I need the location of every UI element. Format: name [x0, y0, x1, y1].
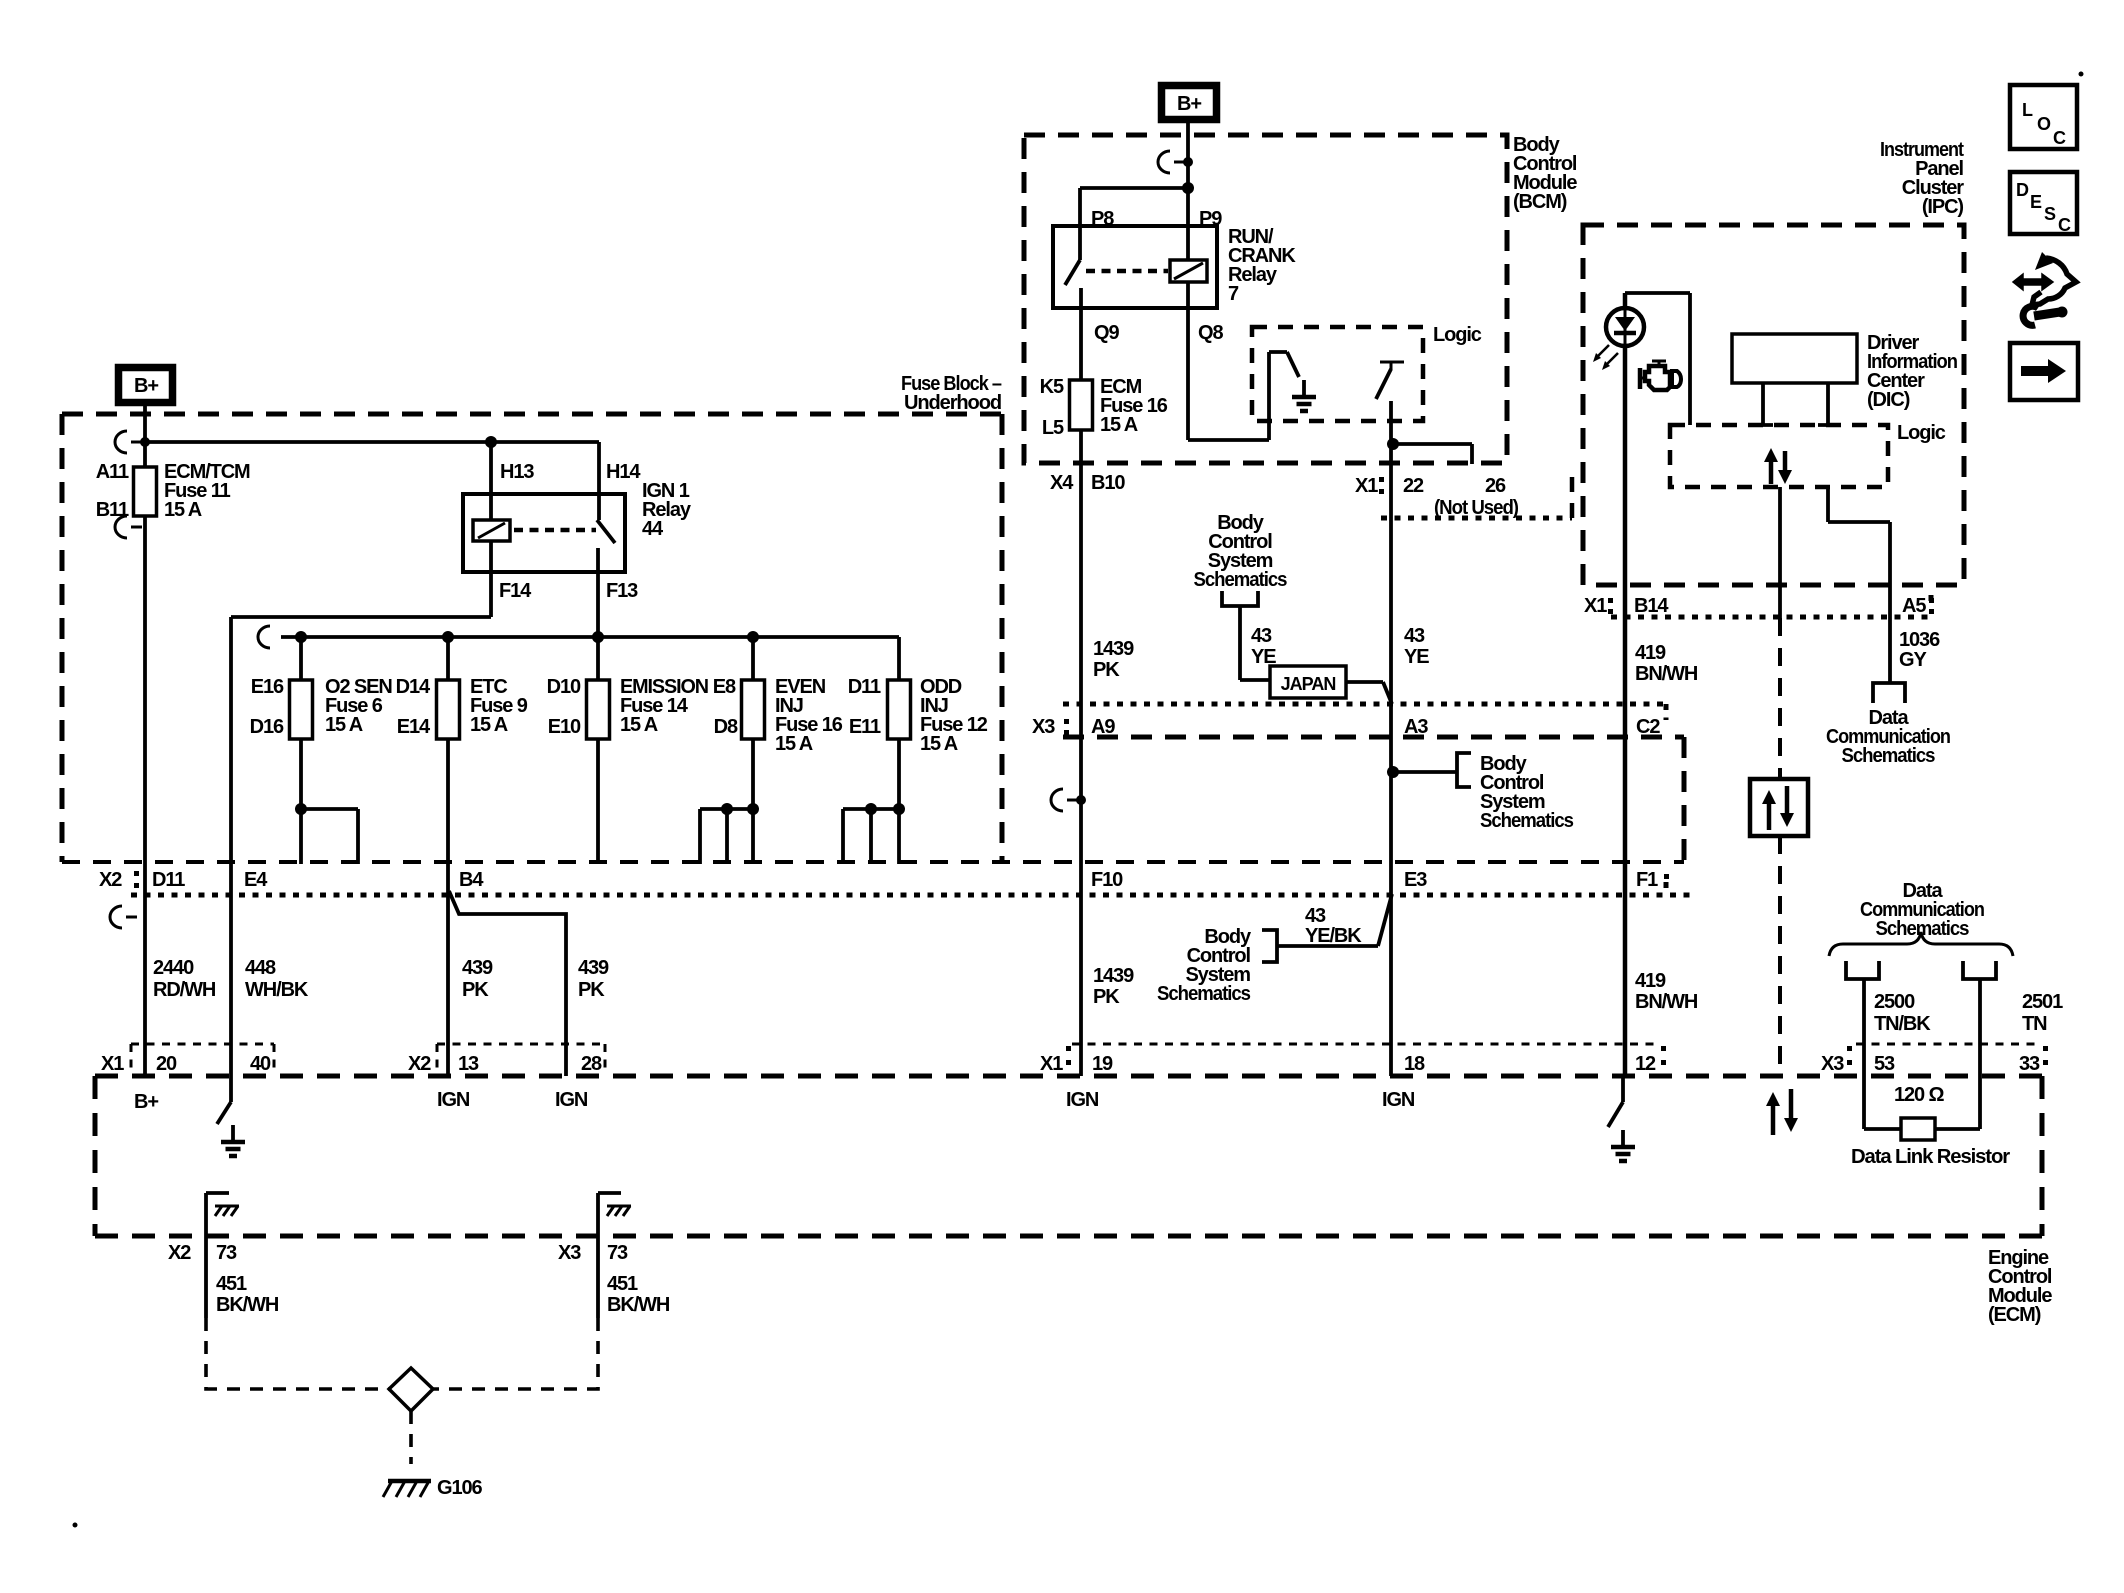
svg-text:15 A: 15 A: [325, 714, 363, 736]
svg-text:1439: 1439: [1093, 965, 1134, 987]
svg-text:X1: X1: [1584, 595, 1607, 617]
svg-text:E4: E4: [244, 869, 268, 891]
svg-text:(Not Used): (Not Used): [1434, 497, 1518, 519]
svg-text:X1: X1: [101, 1053, 124, 1075]
check engine icon: [1640, 361, 1681, 390]
svg-text:BN/WH: BN/WH: [1635, 991, 1698, 1013]
reference bracket wire 2501: [1963, 961, 2063, 1076]
svg-text:E11: E11: [849, 716, 881, 738]
svg-text:43: 43: [1305, 905, 1326, 927]
icon LOC box: [2010, 85, 2077, 149]
svg-text:7: 7: [1228, 283, 1239, 305]
svg-text:B10: B10: [1091, 472, 1125, 494]
svg-text:X2: X2: [168, 1242, 191, 1264]
data communication schematics brace: [1829, 880, 2013, 956]
svg-text:X2: X2: [99, 869, 122, 891]
svg-text:12: 12: [1635, 1053, 1656, 1075]
svg-text:Q9: Q9: [1094, 322, 1119, 344]
svg-text:D14: D14: [396, 676, 431, 698]
svg-text:H14: H14: [606, 461, 641, 483]
svg-text:2500: 2500: [1874, 991, 1915, 1013]
svg-text:A9: A9: [1091, 716, 1115, 738]
svg-text:F10: F10: [1091, 869, 1123, 891]
svg-text:E14: E14: [397, 716, 431, 738]
svg-text:73: 73: [216, 1242, 237, 1264]
wire Q8 to BCM logic: [1188, 308, 1287, 440]
svg-text:TN/BK: TN/BK: [1874, 1013, 1931, 1035]
driver information center DIC box: [1732, 332, 1957, 411]
svg-text:44: 44: [642, 518, 664, 540]
svg-text:C2: C2: [1636, 716, 1660, 738]
svg-text:Logic: Logic: [1433, 324, 1482, 346]
svg-text:40: 40: [250, 1053, 271, 1075]
ECM connector X1 pins 20 40 box: [101, 1044, 274, 1075]
svg-text:451: 451: [216, 1273, 247, 1295]
ECM connector X3 pins 53 33 box: [1821, 1044, 2048, 1075]
not used dashed box: [1379, 477, 1572, 518]
svg-text:26: 26: [1485, 475, 1506, 497]
svg-text:BN/WH: BN/WH: [1635, 663, 1698, 685]
svg-text:IGN: IGN: [437, 1089, 470, 1111]
svg-text:439: 439: [462, 957, 493, 979]
BCM logic ignition switch: [1376, 362, 1404, 399]
svg-text:43: 43: [1251, 625, 1272, 647]
wire B+ into BCM: [1186, 123, 1190, 226]
BCM X3 pin labels A9 A3 C2: [1032, 716, 1660, 738]
connector hook below fuse 11: [115, 516, 142, 538]
svg-text:B14: B14: [1634, 595, 1669, 617]
svg-text:2440: 2440: [153, 957, 194, 979]
svg-text:X2: X2: [408, 1053, 431, 1075]
ECM dashed box: [95, 1076, 2052, 1326]
svg-text:Schematics: Schematics: [1842, 745, 1936, 767]
battery feed B+ terminal 2: [1162, 86, 1217, 120]
ground G106: [383, 1477, 483, 1499]
svg-text:Logic: Logic: [1897, 422, 1946, 444]
wire 43 YE/BK to pin 18 wire: [1277, 894, 1392, 947]
serial data arrows at ECM: [1766, 1089, 1798, 1135]
ECM ground symbol below pin 40: [221, 1125, 245, 1156]
svg-text:22: 22: [1403, 475, 1424, 497]
svg-text:X1: X1: [1355, 475, 1378, 497]
wire 439 PK fuse 9 to ECM pin 13: [448, 739, 493, 1076]
svg-text:419: 419: [1635, 642, 1666, 664]
svg-text:20: 20: [156, 1053, 177, 1075]
svg-text:53: 53: [1874, 1053, 1895, 1075]
fuse ODD INJ Fuse 12 15A: [848, 637, 988, 755]
svg-text:13: 13: [458, 1053, 479, 1075]
BCM X1 pin labels 22 26: [1355, 475, 1518, 519]
wire 1036 GY IPC A5: [1828, 487, 1890, 617]
IPC logic dashed box: [1670, 422, 1946, 487]
svg-text:15 A: 15 A: [775, 733, 813, 755]
svg-text:419: 419: [1635, 970, 1666, 992]
wire 1439 PK BCM B10 to ECM pin 19: [1050, 430, 1134, 1076]
ECM connector X2 pins 13 28 box: [408, 1044, 605, 1075]
wire bus B+ to IGN 1 relay: [145, 436, 599, 448]
splice diamond: [389, 1368, 433, 1411]
wire 439 PK branch to ECM pin 28: [449, 891, 609, 1076]
svg-text:Schematics: Schematics: [1194, 569, 1288, 591]
svg-text:33: 33: [2019, 1053, 2040, 1075]
svg-text:Schematics: Schematics: [1480, 810, 1574, 832]
svg-text:B+: B+: [134, 375, 158, 397]
svg-text:JAPAN: JAPAN: [1281, 674, 1336, 694]
svg-text:15 A: 15 A: [164, 499, 202, 521]
svg-text:RD/WH: RD/WH: [153, 979, 216, 1001]
svg-text:15 A: 15 A: [620, 714, 658, 736]
wire 419 BN/WH IPC B14 to ECM pin 12: [1625, 347, 1698, 1076]
svg-text:19: 19: [1092, 1053, 1113, 1075]
relay IGN 1 44 box: [463, 480, 692, 572]
svg-text:C: C: [2053, 128, 2066, 148]
svg-text:43: 43: [1404, 625, 1425, 647]
BCM X3 connector dotted line: [1063, 704, 1666, 720]
connector hook splice at B+ bus: [115, 431, 150, 453]
svg-text:BK/WH: BK/WH: [216, 1294, 279, 1316]
fuse ECM Fuse 16 15A: [1040, 308, 1168, 439]
ground distribution dashed wire left: [206, 1318, 389, 1389]
svg-text:1036: 1036: [1899, 629, 1940, 651]
relay IGN 1 pin F14 wire to ECM pin 40: [231, 541, 532, 1076]
wire 43 YE to JAPAN splice: [1240, 606, 1276, 680]
svg-text:X3: X3: [1821, 1053, 1844, 1075]
serial data arrows box: [1750, 779, 1808, 836]
ECM connector X1 pins 19 18 12 box: [1040, 1044, 1666, 1075]
svg-text:D11: D11: [848, 676, 881, 698]
ECM pin function labels: [134, 1089, 1415, 1113]
IPC X1 pin labels B14 A5: [1584, 595, 1934, 617]
wire O2 SEN fuse outputs: [295, 739, 358, 864]
icon arrow box: [2010, 343, 2078, 400]
relay RUN/CRANK coil link dashed: [1086, 269, 1168, 274]
fuse ECM/TCM Fuse 11 15A: [96, 461, 250, 521]
svg-text:73: 73: [607, 1242, 628, 1264]
svg-text:(IPC): (IPC): [1922, 196, 1964, 218]
svg-text:Underhood: Underhood: [904, 392, 1001, 414]
ECM ground pin X3 73 labels: [558, 1242, 670, 1316]
svg-text:IGN: IGN: [555, 1089, 588, 1111]
LED arrows: [1593, 345, 1618, 370]
icon DESC box: [2010, 172, 2077, 235]
fuse EVEN INJ Fuse 16 15A: [713, 637, 843, 755]
svg-text:B+: B+: [134, 1091, 158, 1113]
relay RUN/CRANK coil: [1170, 208, 1223, 344]
svg-text:TN: TN: [2022, 1013, 2047, 1035]
relay IGN 1 coil: [473, 442, 534, 541]
svg-text:A5: A5: [1902, 595, 1926, 617]
svg-text:F13: F13: [606, 580, 638, 602]
svg-text:L: L: [2022, 100, 2033, 120]
wire EVEN INJ fuse outputs: [700, 739, 759, 864]
splice JAPAN box: [1270, 666, 1346, 698]
svg-text:(DIC): (DIC): [1867, 389, 1910, 411]
BCM logic switch to ground: [1287, 352, 1299, 377]
svg-text:S: S: [2044, 204, 2056, 224]
wire JAPAN to pin A3 junction: [1346, 682, 1392, 704]
svg-text:120 Ω: 120 Ω: [1894, 1084, 1945, 1106]
ECM internal switch to ground from pin 12: [1608, 1076, 1623, 1127]
svg-text:WH/BK: WH/BK: [245, 979, 309, 1001]
connector hook splice on 1439 PK wire: [1051, 789, 1086, 811]
svg-text:X3: X3: [1032, 716, 1055, 738]
wire P8 branch: [1080, 182, 1194, 226]
wire EMISSION fuse output: [596, 739, 600, 864]
harness row dashed line: [62, 860, 1684, 864]
svg-text:D10: D10: [547, 676, 581, 698]
svg-text:A3: A3: [1404, 716, 1428, 738]
svg-text:15 A: 15 A: [920, 733, 958, 755]
reference data communication schematics upper: [1826, 683, 1950, 767]
data link resistor 120 ohm: [1851, 1076, 2010, 1168]
relay IGN 1 coil link dashed: [514, 528, 596, 533]
reference body control system schematics right: [1480, 753, 1574, 832]
relay RUN/CRANK 7 box: [1053, 226, 1296, 308]
svg-text:PK: PK: [1093, 659, 1120, 681]
svg-text:P8: P8: [1091, 208, 1114, 230]
svg-text:PK: PK: [462, 979, 489, 1001]
svg-text:YE: YE: [1404, 646, 1429, 668]
svg-text:Data Link Resistor: Data Link Resistor: [1851, 1146, 2010, 1168]
svg-text:E3: E3: [1404, 869, 1427, 891]
wire 1036 GY to data communication reference: [1890, 617, 1940, 682]
ignition fuse bus wire: [281, 631, 899, 643]
ECM ground pin X3 73: [598, 1193, 631, 1318]
svg-text:O: O: [2037, 114, 2051, 134]
wire IPC logic serial data down: [1778, 487, 1782, 618]
svg-text:C: C: [2058, 215, 2071, 235]
svg-text:28: 28: [581, 1053, 602, 1075]
battery feed B+ terminal 1: [119, 368, 173, 403]
svg-text:E10: E10: [548, 716, 581, 738]
fuse ETC Fuse 9 15A: [396, 637, 528, 739]
svg-text:D16: D16: [250, 716, 284, 738]
svg-text:B4: B4: [459, 869, 484, 891]
svg-text:E16: E16: [251, 676, 284, 698]
svg-text:A11: A11: [96, 461, 129, 483]
BCM logic ground symbol: [1292, 380, 1316, 411]
serial data dashed wire to ECM: [1778, 618, 1782, 1074]
fuse EMISSION Fuse 14 15A: [547, 637, 709, 739]
svg-text:E8: E8: [713, 676, 736, 698]
junction A3 to body control reference: [1387, 753, 1471, 787]
svg-text:451: 451: [607, 1273, 638, 1295]
svg-text:GY: GY: [1899, 649, 1927, 671]
svg-text:(BCM): (BCM): [1513, 191, 1567, 213]
svg-text:BK/WH: BK/WH: [607, 1294, 670, 1316]
wire BCM logic to pin 22: [1387, 401, 1399, 1076]
svg-text:15 A: 15 A: [1100, 414, 1138, 436]
wire B+ to fuse 11: [143, 406, 147, 467]
svg-text:PK: PK: [1093, 986, 1120, 1008]
svg-text:18: 18: [1404, 1053, 1425, 1075]
svg-text:439: 439: [578, 957, 609, 979]
wire 2440 RD/WH fuse 11 to ECM pin 20: [145, 516, 216, 1076]
wire LED to DIC logic: [1625, 293, 1690, 425]
connector X2 labels row: [99, 869, 1669, 891]
fuse block underhood dashed box: [62, 373, 1002, 862]
ground distribution dashed wire right: [433, 1318, 598, 1389]
ECM ground symbol below pin 12: [1611, 1130, 1635, 1161]
svg-text:15 A: 15 A: [470, 714, 508, 736]
svg-text:(ECM): (ECM): [1988, 1304, 2041, 1326]
svg-text:G106: G106: [437, 1477, 483, 1499]
fuse O2 SEN Fuse 6 15A: [250, 637, 393, 739]
relay IGN 1 switch: [597, 442, 641, 572]
svg-text:F1: F1: [1636, 869, 1658, 891]
svg-text:X4: X4: [1050, 472, 1074, 494]
svg-text:H13: H13: [500, 461, 534, 483]
wire 43 YE pin A3 label: [1404, 625, 1429, 668]
relay RUN/CRANK switch: [1065, 208, 1119, 344]
relay IGN 1 pin F13 wire to fuse bus: [598, 572, 638, 637]
svg-text:2501: 2501: [2022, 991, 2063, 1013]
svg-text:L5: L5: [1042, 417, 1064, 439]
wire branch to pin 26 not used: [1393, 444, 1472, 464]
harness row dotted line: [131, 882, 1690, 895]
dashed wire splice to G106: [409, 1411, 413, 1464]
ECM ground pin X2 73: [206, 1193, 239, 1318]
svg-text:P9: P9: [1199, 208, 1222, 230]
wire ODD INJ fuse outputs: [843, 739, 905, 864]
icon hotspot wrench: [2013, 252, 2076, 325]
svg-text:D: D: [2016, 180, 2029, 200]
svg-text:E: E: [2030, 192, 2042, 212]
svg-text:F14: F14: [499, 580, 532, 602]
IPC dashed box: [1583, 139, 1964, 585]
svg-text:IGN: IGN: [1382, 1089, 1415, 1111]
svg-text:Q8: Q8: [1198, 322, 1223, 344]
svg-text:448: 448: [245, 957, 276, 979]
connector hook at X2 D11: [110, 906, 137, 928]
connector hook splice on BCM B+ wire: [1158, 151, 1193, 173]
svg-text:D8: D8: [714, 716, 738, 738]
IPC logic serial data arrows: [1764, 448, 1792, 484]
svg-text:IGN: IGN: [1066, 1089, 1099, 1111]
svg-text:X1: X1: [1040, 1053, 1063, 1075]
reference body control system schematics upper: [1194, 512, 1288, 606]
connector hook at fuse bus start: [258, 626, 270, 648]
ECM ground pin X2 73 labels: [168, 1242, 279, 1316]
indicator LED symbol: [1606, 293, 1644, 347]
svg-text:PK: PK: [578, 979, 605, 1001]
DIC legs to logic: [1753, 383, 1838, 425]
reference body control system schematics lower: [1157, 926, 1277, 1005]
svg-text:K5: K5: [1040, 376, 1064, 398]
svg-text:X3: X3: [558, 1242, 581, 1264]
svg-text:1439: 1439: [1093, 638, 1134, 660]
svg-text:Schematics: Schematics: [1157, 983, 1251, 1005]
IPC connector dotted line: [1611, 595, 1931, 617]
BCM dashed box: [1024, 134, 1577, 463]
BCM logic dashed box: [1252, 324, 1482, 421]
svg-text:D11: D11: [152, 869, 185, 891]
BCM lower dashed box: [1063, 737, 1684, 862]
svg-text:B+: B+: [1177, 93, 1201, 115]
svg-text:YE/BK: YE/BK: [1305, 925, 1362, 947]
reference bracket wire 2500: [1846, 961, 1931, 1076]
ECM internal switch to ground from pin 40: [217, 1076, 231, 1124]
